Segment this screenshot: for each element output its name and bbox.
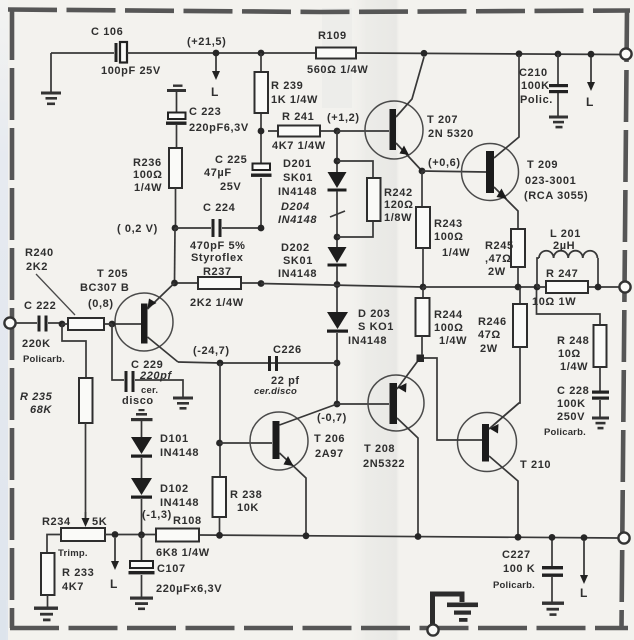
svg-text:,47Ω: ,47Ω (485, 253, 512, 265)
svg-text:T 209: T 209 (527, 159, 558, 171)
svg-text:Styroflex: Styroflex (191, 252, 244, 264)
wire (bottom rail) (105, 535, 618, 539)
svg-text:C210: C210 (519, 67, 548, 79)
resistor R236 100R 1/4W (133, 148, 182, 194)
diode D203 SK01 IN4148 (327, 308, 394, 347)
node (L arrow tap bottom left) (112, 531, 119, 538)
svg-text:100Ω: 100Ω (133, 169, 163, 181)
wire (C106 left lead) (51, 52, 114, 54)
svg-text:100Ω: 100Ω (434, 322, 464, 334)
svg-text:D204: D204 (281, 201, 310, 213)
svg-text:470pF 5%: 470pF 5% (190, 240, 246, 252)
node (D202 top / R242 bottom tap) (334, 234, 341, 241)
resistor R233 4K7 (41, 553, 94, 595)
svg-text:R246: R246 (478, 316, 507, 328)
test point arrow L (bottom right) (580, 534, 588, 600)
resistor R108 6K8 1/4W (156, 515, 210, 559)
svg-text:100pF 25V: 100pF 25V (101, 65, 161, 77)
svg-text:C227: C227 (502, 549, 531, 561)
node (-24,7) (193, 345, 230, 366)
resistor R248 10R 1/4W (557, 325, 607, 373)
node (R243/R244 mid rail) (420, 284, 427, 291)
svg-text:2µH: 2µH (553, 240, 575, 252)
resistor R238 10K (213, 477, 263, 517)
svg-text:25V: 25V (220, 181, 241, 193)
svg-text:L: L (110, 577, 118, 591)
svg-text:5K: 5K (92, 516, 107, 528)
resistor R239 1K 1/4W (255, 53, 319, 131)
wire (D101 to D102) (141, 458, 143, 478)
svg-text:R244: R244 (434, 309, 463, 321)
svg-text:1/4W: 1/4W (439, 335, 467, 347)
svg-text:T 206: T 206 (314, 433, 345, 445)
svg-text:47Ω: 47Ω (478, 329, 501, 341)
wire (R233 to ground) (47, 595, 49, 607)
resistor R237 2K2 1/4W (175, 266, 262, 309)
diode D204 IN4148 (tick mark) (278, 201, 345, 226)
svg-text:R 247: R 247 (546, 268, 578, 280)
diode D102 IN4148 (131, 478, 199, 509)
svg-text:T 205: T 205 (97, 268, 128, 280)
capacitor C224 470pF 5% Styroflex (175, 202, 261, 264)
wire (junction to T210 base) (424, 358, 456, 440)
svg-text:220pF6,3V: 220pF6,3V (189, 122, 249, 134)
resistor R246 47R 2W (478, 287, 527, 429)
wire (C226 node down to R238) (219, 363, 221, 477)
svg-text:L: L (580, 586, 588, 600)
node (R245/R246 at rail) (515, 284, 522, 291)
ground (C106 left) (41, 53, 61, 105)
terminal (bottom border) (427, 624, 438, 635)
node (T209 collector at rail) (516, 50, 523, 57)
svg-text:120Ω: 120Ω (384, 199, 414, 211)
svg-text:L 201: L 201 (550, 228, 581, 240)
capacitor C222 220K Policarb. (15, 300, 65, 365)
resistor R235 68K (20, 378, 93, 423)
wire (R235 to trimmer R234) (85, 423, 87, 519)
resistor R241 4K7 1/4W (268, 111, 337, 152)
svg-text:1K 1/4W: 1K 1/4W (271, 94, 318, 106)
capacitor C228 100K 250V Policarb. (544, 367, 609, 438)
svg-text:R109: R109 (318, 30, 347, 42)
svg-text:IN4148: IN4148 (160, 497, 199, 509)
svg-text:(0,8): (0,8) (88, 298, 114, 310)
transistor T209 023-3001 (RCA 3055) (462, 55, 589, 229)
transistor T205 BC307B (0,8) (80, 268, 178, 362)
resistor R240 2K2 (25, 247, 112, 330)
svg-text:023-3001: 023-3001 (525, 175, 576, 187)
capacitor C223 220pF 6,3V (electrolytic) (166, 106, 249, 134)
svg-text:SK01: SK01 (283, 255, 313, 267)
node (R237 right at C225 line) (258, 280, 265, 287)
svg-text:R237: R237 (203, 266, 232, 278)
svg-text:(+0,6): (+0,6) (428, 157, 461, 169)
transistor T207 2N5320 (365, 57, 474, 171)
wire (-24,7 rail from T205 collector) (178, 362, 337, 363)
node (T210 collector at bottom rail) (515, 534, 522, 541)
svg-text:1/4W: 1/4W (442, 247, 470, 259)
svg-text:D 203: D 203 (358, 308, 390, 320)
svg-text:1/4W: 1/4W (134, 182, 162, 194)
capacitor C227 100K Policarb. (493, 538, 563, 603)
svg-text:IN4148: IN4148 (278, 214, 317, 226)
svg-text:4K7: 4K7 (62, 581, 84, 593)
svg-text:D101: D101 (160, 433, 189, 445)
ground (C227) (542, 602, 564, 616)
svg-text:R 239: R 239 (271, 80, 303, 92)
diode D202 SK01 IN4148 (278, 242, 347, 280)
node (C222 / R240 / R235 junction) (59, 321, 66, 328)
wire (mid rail R243 to output node) (423, 286, 537, 288)
svg-text:C 106: C 106 (91, 26, 123, 38)
svg-text:2A97: 2A97 (315, 448, 344, 460)
svg-text:C 225: C 225 (215, 154, 247, 166)
ground (C229) (173, 397, 193, 410)
svg-text:C 224: C 224 (203, 202, 236, 214)
svg-text:IN4148: IN4148 (348, 335, 387, 347)
svg-text:Policarb.: Policarb. (23, 354, 65, 365)
wire (T206 base) (220, 442, 273, 444)
capacitor C106 100pF 25V (electrolytic) (91, 26, 161, 77)
svg-text:T 208: T 208 (364, 443, 395, 455)
trimmer R234 5K with wiper arrow (42, 512, 107, 559)
svg-text:100Ω: 100Ω (434, 231, 464, 243)
svg-text:1/4W: 1/4W (560, 361, 588, 373)
svg-text:4K7 1/4W: 4K7 1/4W (272, 140, 326, 152)
node (R238 at bottom rail) (216, 532, 223, 539)
resistor R247 10R 1W (532, 268, 619, 308)
svg-text:1/8W: 1/8W (384, 212, 412, 224)
svg-text:T 210: T 210 (520, 459, 551, 471)
node (T207 emitter / T209 base / R243) (419, 168, 426, 175)
svg-text:2N 5320: 2N 5320 (428, 128, 474, 140)
svg-text:(-1,3): (-1,3) (142, 509, 172, 521)
diode D101 IN4148 (131, 433, 199, 459)
svg-text:250V: 250V (557, 411, 585, 423)
resistor R244 100R 1/4W (416, 287, 468, 355)
transistor T206 2A97 (250, 404, 345, 536)
ground (C210) (549, 116, 568, 129)
node (C107 tap) (138, 531, 145, 538)
svg-text:SK01: SK01 (283, 172, 313, 184)
ground (chassis, thick) (447, 603, 478, 622)
svg-text:68K: 68K (30, 404, 52, 416)
svg-text:D201: D201 (283, 158, 312, 170)
wire (R236 to 0,2V node) (175, 188, 177, 228)
junction (R244 bottom / T208 emitter / T210 base) (417, 355, 425, 363)
svg-text:C 222: C 222 (24, 300, 56, 312)
wire (diode chain top) (336, 131, 338, 172)
test point arrow L (bottom left) (110, 538, 119, 591)
node (C227 at bottom rail) (549, 534, 556, 541)
wire (R238 to bottom rail) (219, 517, 221, 536)
svg-text:R243: R243 (434, 218, 463, 230)
wire (+21.5V rail left) (127, 52, 316, 54)
svg-text:(RCA 3055): (RCA 3055) (524, 190, 588, 202)
resistor R242 120R 1/8W (367, 178, 414, 224)
svg-text:2K2 1/4W: 2K2 1/4W (190, 297, 244, 309)
svg-text:R245: R245 (485, 240, 514, 252)
svg-text:220µFx6,3V: 220µFx6,3V (156, 583, 222, 595)
svg-text:R 248: R 248 (557, 335, 589, 347)
svg-text:Policarb.: Policarb. (544, 427, 586, 438)
svg-text:(-24,7): (-24,7) (193, 345, 230, 357)
wire (T205 base) (112, 323, 141, 325)
svg-text:Polic.: Polic. (520, 94, 553, 106)
wire (T207 base) (337, 130, 389, 132)
wire (D203 to C226 node) (336, 333, 338, 404)
svg-text:R234: R234 (42, 516, 71, 528)
wire (node to R242 top) (337, 161, 373, 178)
chassis ground lead (thick hook from bottom terminal) (433, 594, 463, 625)
svg-text:R 238: R 238 (230, 489, 262, 501)
svg-text:2K2: 2K2 (26, 261, 48, 273)
node (T205 base / C229 tap) (109, 321, 116, 328)
svg-text:2W: 2W (480, 343, 498, 355)
test point arrow L (top left) (211, 56, 220, 99)
wire (C223 to R236) (176, 125, 178, 148)
svg-text:47µF: 47µF (204, 167, 232, 179)
svg-text:R108: R108 (173, 515, 202, 527)
node (R239/R241 junction) (258, 128, 265, 135)
svg-text:2N5322: 2N5322 (363, 458, 405, 470)
wire (D201 to D202) (336, 191, 338, 247)
node (C226 right) (334, 360, 341, 367)
svg-text:R 235: R 235 (20, 391, 53, 403)
node (C224/C225 junction) (258, 225, 265, 232)
node (R239 top) (258, 50, 265, 57)
node (0,2 V) (117, 223, 178, 235)
svg-text:10Ω 1W: 10Ω 1W (532, 296, 576, 308)
wire (D202 to D203) (336, 266, 338, 312)
svg-text:( 0,2 V): ( 0,2 V) (117, 223, 158, 235)
svg-text:IN4148: IN4148 (278, 186, 317, 198)
svg-text:S KO1: S KO1 (358, 321, 394, 333)
svg-text:C 228: C 228 (557, 385, 589, 397)
svg-text:L: L (211, 85, 219, 99)
svg-text:L: L (586, 95, 594, 109)
wire (D102 to bottom rail) (141, 499, 143, 535)
inductor L201 2uH (537, 228, 598, 287)
ground (C107) (130, 597, 153, 611)
svg-text:220pf: 220pf (139, 370, 172, 382)
svg-text:R 233: R 233 (62, 567, 94, 579)
node (D203 / T208 base / T206 collector) (334, 401, 341, 408)
wire (T209 base) (422, 171, 486, 172)
svg-text:(+1,2): (+1,2) (327, 112, 360, 124)
node (T207 collector at rail) (421, 50, 428, 57)
wire (output node to R248) (537, 290, 601, 325)
wire (trimmer left to R233) (47, 535, 61, 554)
svg-text:IN4148: IN4148 (160, 447, 199, 459)
svg-text:560Ω 1/4W: 560Ω 1/4W (307, 64, 368, 76)
svg-text:100K: 100K (521, 80, 550, 92)
node (+21,5) (187, 36, 226, 56)
svg-text:D202: D202 (281, 242, 310, 254)
test point arrow L (top right) (586, 57, 595, 109)
svg-text:100K: 100K (557, 398, 586, 410)
svg-text:C 223: C 223 (189, 106, 221, 118)
capacitor C225 47uF 25V (electrolytic) (204, 131, 272, 228)
node (T206 base tap) (216, 440, 223, 447)
svg-text:BC307 B: BC307 B (80, 282, 129, 294)
svg-text:Policarb.: Policarb. (493, 580, 535, 591)
svg-text:220K: 220K (22, 338, 51, 350)
resistor R109 560R 1/4W (307, 30, 368, 76)
wire (T208 base) (337, 403, 389, 405)
svg-text:IN4148: IN4148 (278, 268, 317, 280)
wire (node to R242 bottom) (337, 221, 373, 237)
terminal (bottom rail, right border) (618, 532, 629, 543)
node (D201 top / R242 top tap) (334, 158, 341, 165)
wire (mid bias rail) (261, 284, 423, 288)
wire (node to R235) (62, 324, 86, 378)
resistor R243 100R 1/4W (416, 171, 470, 287)
svg-text:cer.disco: cer.disco (254, 386, 297, 397)
svg-text:disco: disco (122, 395, 154, 407)
node (C210 at rail) (555, 51, 562, 58)
ground (R233) (34, 607, 58, 622)
svg-text:10Ω: 10Ω (558, 348, 581, 360)
capacitor C107 220uFx6,3V (electrolytic) (129, 535, 223, 597)
terminal (+21.5V right border) (620, 48, 631, 59)
svg-text:C226: C226 (273, 344, 302, 356)
svg-text:D102: D102 (160, 483, 189, 495)
svg-text:10K: 10K (237, 502, 259, 514)
svg-text:R242: R242 (384, 187, 413, 199)
svg-text:6K8 1/4W: 6K8 1/4W (156, 547, 210, 559)
diode D201 SK01 IN4148 (278, 158, 347, 198)
node (R237 left / T205 emitter / R236) (171, 280, 178, 287)
svg-text:(-0,7): (-0,7) (317, 412, 347, 424)
ground (above D101, inverted) (131, 409, 153, 437)
svg-text:C107: C107 (157, 563, 186, 575)
svg-text:Trimp.: Trimp. (58, 548, 88, 559)
svg-text:R240: R240 (25, 247, 54, 259)
ground (C228) (592, 417, 609, 430)
node (R241/D201/T207 base) (334, 128, 341, 135)
svg-text:R236: R236 (133, 157, 162, 169)
transistor T210 (456, 403, 551, 537)
svg-text:100 K: 100 K (503, 563, 535, 575)
svg-text:(+21,5): (+21,5) (187, 36, 226, 48)
capacitor C226 22pf cer.disco (254, 344, 302, 397)
node (output node left of L201) (534, 284, 541, 291)
node (L201/R247 right) (595, 284, 602, 291)
svg-text:2W: 2W (488, 266, 506, 278)
capacitor C229 220pf cer. disco (112, 324, 183, 407)
terminal (input, left border) (4, 317, 15, 328)
wire (0,2V node down to R237 left) (174, 228, 177, 283)
svg-text:R 241: R 241 (282, 111, 314, 123)
capacitor C210 100K Polic. (519, 54, 568, 116)
ground (above C223, inverted) (167, 85, 186, 114)
svg-text:T 207: T 207 (427, 114, 458, 126)
transistor T208 2N5322 (363, 358, 424, 536)
node (T208 collector at bottom rail) (415, 533, 422, 540)
resistor R245 ,47R 2W (485, 229, 525, 287)
node (bias chain at mid rail) (334, 281, 341, 288)
node (L arrow at rail) (588, 51, 595, 58)
wire (+21.5V rail right) (356, 53, 620, 55)
node (T206 emitter at bottom rail) (303, 532, 310, 539)
terminal (output, right border) (619, 281, 630, 292)
